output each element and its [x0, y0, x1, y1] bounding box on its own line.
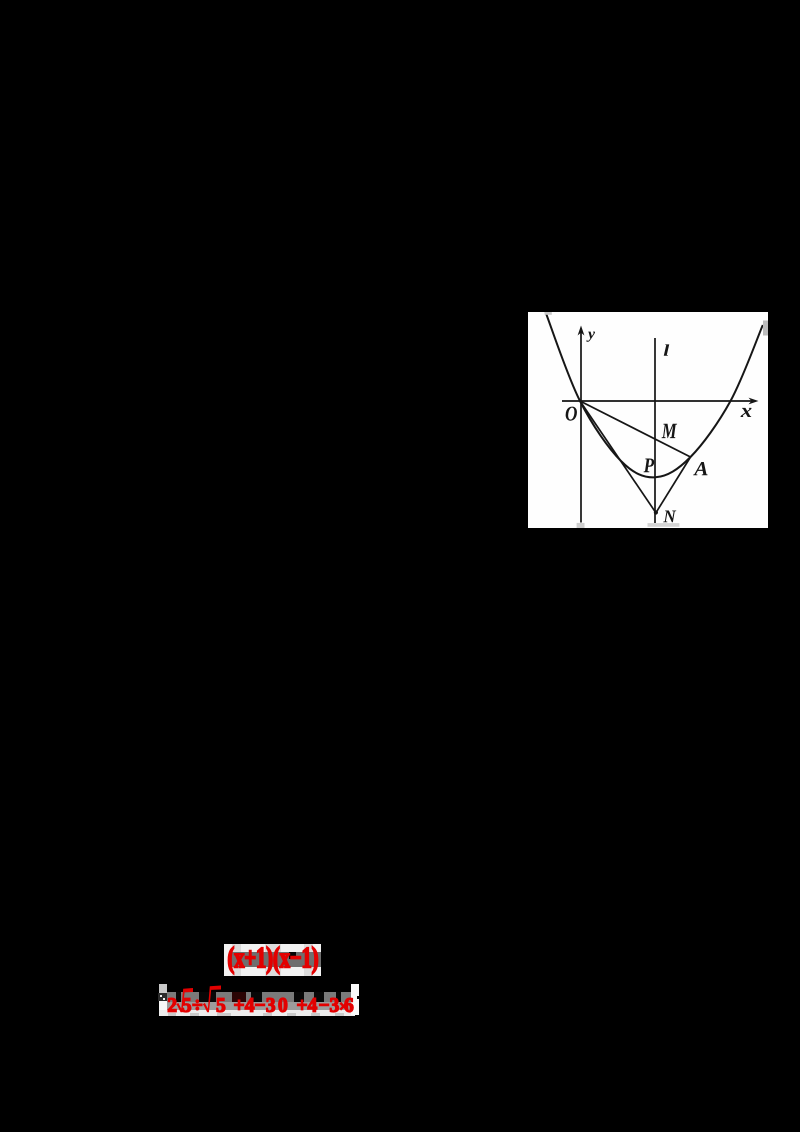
- top band black blocks: [176, 992, 181, 1002]
- black square artifact: [289, 952, 297, 959]
- label O: [566, 407, 577, 421]
- left white column: [159, 1001, 167, 1016]
- label M: [662, 424, 678, 438]
- red formula line 1 strip: [224, 944, 321, 976]
- red formula line 2 strip: [157, 984, 360, 1016]
- radical sign 1: [176, 988, 193, 1012]
- x-axis: [562, 400, 753, 402]
- top band base gray: [167, 992, 351, 1002]
- radical sign 2: [203, 986, 221, 1013]
- left dark square: [158, 993, 168, 1002]
- right white column: [351, 984, 359, 1016]
- parabola: [546, 312, 763, 477]
- chord OA: [580, 401, 691, 457]
- left light gray square: [159, 984, 167, 993]
- label A: [693, 462, 707, 475]
- black dot right: [357, 996, 360, 999]
- label P: [644, 458, 655, 472]
- label x: [741, 408, 752, 417]
- edge stripe artifacts: [232, 944, 241, 976]
- label N: [663, 511, 676, 523]
- scan artifact bottom gray mid: [648, 523, 680, 527]
- node N dot: [654, 510, 658, 514]
- y-axis: [580, 332, 582, 523]
- red formula line 1 text: [224, 944, 321, 976]
- label y: [586, 332, 595, 342]
- y-axis arrowhead: [578, 326, 585, 336]
- bottom band gray blocks: [168, 1013, 176, 1017]
- scan artifact top-left gray: [545, 312, 552, 315]
- label l: [664, 344, 669, 355]
- bottom light band: [159, 1010, 355, 1017]
- maroon block: [232, 992, 246, 1002]
- line l: [654, 338, 656, 523]
- scan artifact top-right gray: [763, 321, 768, 336]
- line AN: [656, 457, 691, 513]
- scan artifact bottom gray left: [577, 523, 585, 528]
- white figure panel: [528, 312, 768, 528]
- gray highlight band: [230, 952, 321, 967]
- mid gray band: [167, 1002, 351, 1010]
- red formula line 2 text: [157, 984, 360, 1018]
- line ON: [580, 401, 656, 513]
- x-axis arrowhead: [749, 398, 759, 405]
